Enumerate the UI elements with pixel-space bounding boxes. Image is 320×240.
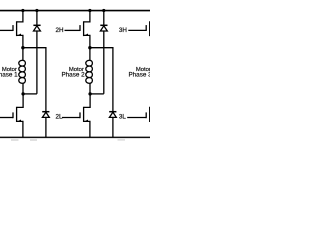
node: junction dot top rail / Q1 drain	[21, 9, 24, 12]
node: junction dot top rail / Q3 drain	[88, 9, 91, 12]
svg-text:3L: 3L	[119, 114, 127, 121]
transistor Q1 high-side MOSFET phase 1	[13, 11, 23, 48]
node: phase 2 lower junction dot	[88, 92, 91, 95]
node: phase 2 output junction dot	[88, 46, 91, 49]
svg-text:Phase 2: Phase 2	[61, 71, 85, 78]
diode D4 flyback phase 2 low	[109, 112, 116, 138]
svg-text:2H: 2H	[56, 27, 65, 34]
diode D1 flyback phase 1 high	[33, 11, 40, 94]
faint cropped caption remnants below ground rail	[11, 139, 125, 141]
inductor L2 motor phase 2 winding	[86, 48, 93, 94]
node: junction dot top rail / D3 cathode	[102, 9, 105, 12]
wire: D1 anode to lower node phase 1	[23, 93, 37, 95]
wire: gate lead 2L	[62, 117, 80, 119]
svg-text:Phase 3: Phase 3	[128, 71, 150, 78]
transistor Q2 low-side MOSFET phase 1	[13, 94, 23, 137]
svg-text:Phase 1: Phase 1	[0, 71, 18, 78]
diode D2 flyback phase 1 low	[42, 112, 49, 138]
node: phase 1 output junction dot	[21, 46, 24, 49]
node: phase 1 lower junction dot	[21, 92, 24, 95]
wire: gate lead 1H (cropped label)	[0, 29, 13, 31]
transistor Q5 high-side MOSFET phase 3 (clipped)	[146, 21, 150, 36]
wire: gate lead 3L	[127, 117, 146, 119]
diode D3 flyback phase 2 high	[100, 11, 107, 94]
svg-text:2L: 2L	[56, 114, 64, 121]
wire: ground bottom rail	[0, 136, 150, 138]
svg-text:3H: 3H	[119, 27, 128, 34]
wire: gate lead 3H	[128, 29, 146, 31]
transistor Q6 low-side MOSFET phase 3 (clipped)	[146, 107, 150, 122]
transistor Q4 low-side MOSFET phase 2	[80, 94, 90, 137]
wire: phase 1 node to low diode branch	[23, 48, 46, 112]
wire: D3 anode to lower node phase 2	[90, 93, 104, 95]
wire: +V top supply rail	[0, 10, 150, 12]
wire: gate lead 1L (cropped label)	[0, 117, 13, 119]
transistor Q3 high-side MOSFET phase 2	[80, 11, 90, 48]
wire: phase 2 node to low diode branch	[90, 48, 113, 112]
inductor L1 motor phase 1 winding	[19, 48, 26, 94]
node: junction dot top rail / D1 cathode	[35, 9, 38, 12]
wire: gate lead 2H	[65, 29, 81, 31]
